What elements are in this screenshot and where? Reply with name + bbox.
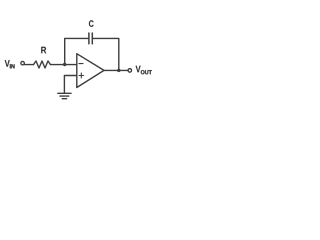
- resistor R: [34, 61, 51, 68]
- wire input to resistor: [24, 64, 33, 66]
- wire feedback left branch: [65, 38, 89, 64]
- wire plus input to ground: [64, 76, 76, 94]
- op-amp U1: [77, 54, 104, 88]
- output terminal: [128, 69, 132, 73]
- op-amp plus sign: [79, 73, 84, 78]
- input terminal: [21, 61, 25, 64]
- wire feedback right branch: [92, 38, 119, 70]
- node A junction dot: [63, 63, 66, 66]
- wire resistor to op-amp minus input: [51, 64, 77, 66]
- label V_IN: [5, 60, 15, 68]
- label R: [41, 47, 46, 54]
- op-amp minus sign: [79, 63, 83, 65]
- wire op-amp output: [104, 69, 128, 71]
- node B junction dot: [117, 69, 120, 72]
- capacitor C: [89, 33, 92, 44]
- label V_OUT: [136, 66, 152, 75]
- ground: [58, 93, 71, 98]
- label C: [89, 20, 94, 27]
